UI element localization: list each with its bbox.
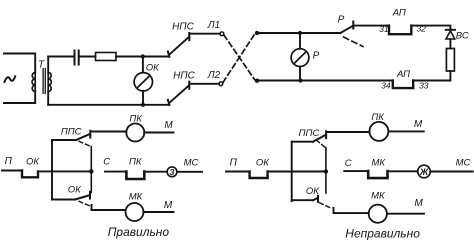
svg-text:ПК: ПК: [129, 114, 143, 125]
coil ПК (right): [369, 122, 388, 141]
connector АП 31-32: [389, 26, 411, 35]
wire (dashed cross): [224, 35, 255, 79]
svg-text:ОК: ОК: [146, 62, 160, 73]
svg-text:ОК: ОК: [306, 186, 320, 197]
contact Р: [341, 26, 354, 33]
svg-text:ОК: ОК: [26, 157, 40, 168]
svg-text:НПС: НПС: [173, 71, 195, 82]
wire: [177, 171, 202, 173]
wire: [79, 56, 96, 58]
svg-text:С: С: [103, 156, 110, 167]
contact ПК: [126, 172, 144, 179]
node (lamp branch, bottom): [141, 103, 145, 107]
svg-text:П: П: [5, 156, 13, 167]
wire: [144, 132, 173, 134]
svg-text:Л1: Л1: [207, 20, 220, 31]
svg-text:М: М: [164, 120, 173, 131]
svg-text:Ж: Ж: [419, 167, 429, 177]
wire: [387, 213, 424, 215]
meter Р: [291, 49, 309, 67]
wire: [449, 39, 451, 49]
coil МК (right): [369, 205, 387, 223]
svg-text:ПК: ПК: [129, 156, 143, 167]
wire: [48, 56, 74, 58]
node Л1: [220, 32, 224, 36]
svg-text:ОК: ОК: [68, 185, 82, 196]
node (armature feed): [89, 169, 93, 173]
wire: [268, 171, 326, 173]
svg-text:ВС: ВС: [456, 31, 469, 42]
svg-text:31: 31: [379, 24, 389, 34]
svg-text:Правильно: Правильно: [108, 225, 170, 239]
svg-text:МС: МС: [456, 157, 471, 168]
lamp Ж: [418, 165, 431, 178]
lamp З: [167, 167, 177, 177]
node Л2: [219, 82, 223, 86]
wire: [142, 57, 144, 73]
contact ППС (polarized, up position): [52, 139, 76, 141]
svg-text:Л2: Л2: [207, 70, 221, 81]
wire: [257, 80, 393, 82]
wire: [413, 71, 450, 81]
svg-text:33: 33: [419, 80, 429, 90]
wire: [388, 170, 418, 172]
wire (branch bus): [51, 140, 53, 200]
wire: [388, 130, 423, 132]
linkage (mechanical tie): [79, 141, 91, 146]
coil МК: [126, 203, 144, 221]
wire (branch bus, right): [291, 142, 293, 202]
wire: [226, 171, 250, 173]
svg-text:С: С: [345, 158, 352, 169]
resistor (ballast, right): [446, 49, 454, 72]
node (lamp branch, top): [141, 54, 145, 58]
wire: [430, 171, 473, 173]
svg-text:З: З: [169, 168, 174, 177]
lamp ОК: [134, 73, 152, 91]
contact ППС (right circuit): [292, 141, 313, 143]
node (right of cross, top): [255, 31, 259, 35]
linkage (right): [316, 140, 324, 147]
wire (bottom bus of generator loop): [48, 104, 169, 106]
capacitor: [75, 51, 79, 65]
wire: [334, 208, 369, 213]
coil ПК: [126, 124, 144, 142]
contact ОК (down branch, right): [292, 199, 313, 201]
wire: [92, 131, 127, 133]
svg-text:34: 34: [381, 81, 391, 91]
wire: [144, 211, 174, 213]
svg-text:МК: МК: [129, 192, 144, 203]
node (meter branch, bottom): [298, 78, 302, 82]
svg-text:М: М: [414, 198, 423, 209]
node (right of cross, bottom): [255, 79, 259, 83]
transformer T: [34, 54, 36, 104]
svg-text:П: П: [230, 158, 238, 169]
svg-text:Т: Т: [38, 60, 45, 71]
contact ОК (front contact, right circuit): [250, 172, 268, 179]
svg-text:Р: Р: [313, 50, 320, 61]
wire: [105, 171, 126, 173]
wire: [92, 205, 126, 210]
node (armature feed, right): [324, 169, 328, 173]
wire: [257, 32, 341, 34]
svg-text:М: М: [414, 119, 423, 130]
svg-text:АП: АП: [396, 69, 410, 80]
wire: [411, 26, 450, 30]
svg-text:НПС: НПС: [172, 22, 194, 33]
contact НПС (top): [168, 52, 169, 57]
wire: [142, 91, 144, 105]
resistor (series): [96, 53, 117, 61]
AC source ~: [4, 54, 34, 104]
svg-text:М: М: [164, 200, 173, 211]
node (meter branch, top): [298, 31, 302, 35]
wire: [2, 170, 22, 172]
svg-text:ППС: ППС: [61, 126, 82, 137]
svg-text:МК: МК: [371, 191, 386, 202]
wire: [38, 170, 91, 172]
wire: [299, 33, 301, 49]
svg-text:АП: АП: [392, 8, 406, 19]
wire: [299, 67, 301, 81]
diode ВС: [446, 29, 455, 31]
svg-text:ППС: ППС: [299, 128, 320, 139]
wire: [344, 170, 368, 172]
svg-text:Р: Р: [338, 15, 345, 26]
wire: [355, 25, 390, 27]
contact ОК (neutral armature, down branch): [52, 199, 75, 201]
contact НПС (bottom): [168, 100, 169, 105]
wire: [116, 56, 169, 58]
svg-text:ОК: ОК: [256, 158, 270, 169]
svg-text:МК: МК: [371, 157, 386, 168]
wire: [189, 83, 218, 85]
svg-text:ПК: ПК: [371, 112, 385, 123]
connector АП 34-33: [393, 81, 413, 89]
contact ОК (front contact of ОК relay): [22, 171, 38, 178]
wire: [327, 131, 370, 133]
wire: [144, 171, 167, 173]
svg-text:Неправильно: Неправильно: [345, 226, 420, 240]
wire: [189, 33, 219, 35]
svg-text:МС: МС: [184, 158, 199, 169]
contact МК: [368, 171, 387, 178]
